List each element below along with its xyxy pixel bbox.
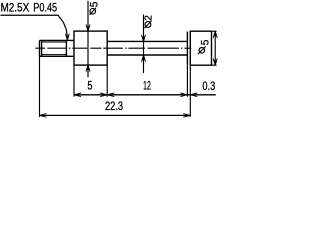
svg-text:0.3: 0.3: [202, 79, 215, 93]
leader M2.5 underline + leader line: [1, 15, 68, 36]
extension line below flange left (22.3 right): [189, 65, 191, 117]
thread root lines: [42, 42, 67, 55]
svg-text:5: 5: [89, 2, 101, 7]
shaft end disc face (0.3): [186, 32, 188, 65]
svg-text:5: 5: [87, 79, 92, 93]
svg-text:2: 2: [144, 15, 155, 21]
leader arrowhead: [66, 36, 69, 41]
extension line below stud left edge (22.3 left): [39, 56, 41, 117]
dia5 left dim line: [87, 1, 89, 78]
thread runout line: [65, 40, 67, 56]
dim line 22.3: [40, 114, 191, 116]
extension line below cylinder left (5 dim): [73, 65, 75, 97]
dia5 right dim line: [214, 31, 216, 65]
text dia2 (rotated): [144, 15, 155, 28]
centerline: [35, 47, 191, 49]
text dia5 top (rotated): [89, 2, 101, 15]
extension line below cylinder right: [106, 65, 108, 97]
dim line 5 / 12 / 0.3: [74, 94, 216, 96]
dia5 right ext lines: [212, 31, 217, 65]
arrows on 94.8 line: [74, 93, 81, 97]
svg-text:12: 12: [143, 78, 151, 92]
dia2 arrows: [142, 37, 145, 60]
svg-text:M2.5X: M2.5X: [1, 0, 30, 14]
dia5 left arrows: [87, 26, 90, 70]
svg-text:5: 5: [199, 40, 211, 46]
thin shaft (2 dia): [107, 41, 187, 55]
end flange (5 dia): [190, 31, 211, 65]
extension line below shaft end disc: [186, 65, 188, 97]
text dia5 right (rotated): [198, 40, 211, 54]
threaded stud M2.5 outline: [40, 40, 75, 56]
dia5 right arrows: [214, 31, 217, 65]
svg-text:P0.45: P0.45: [33, 0, 57, 14]
dia2 dim line: [143, 15, 145, 74]
svg-text:22.3: 22.3: [105, 99, 123, 113]
cylinder body (5 dia): [74, 31, 107, 65]
